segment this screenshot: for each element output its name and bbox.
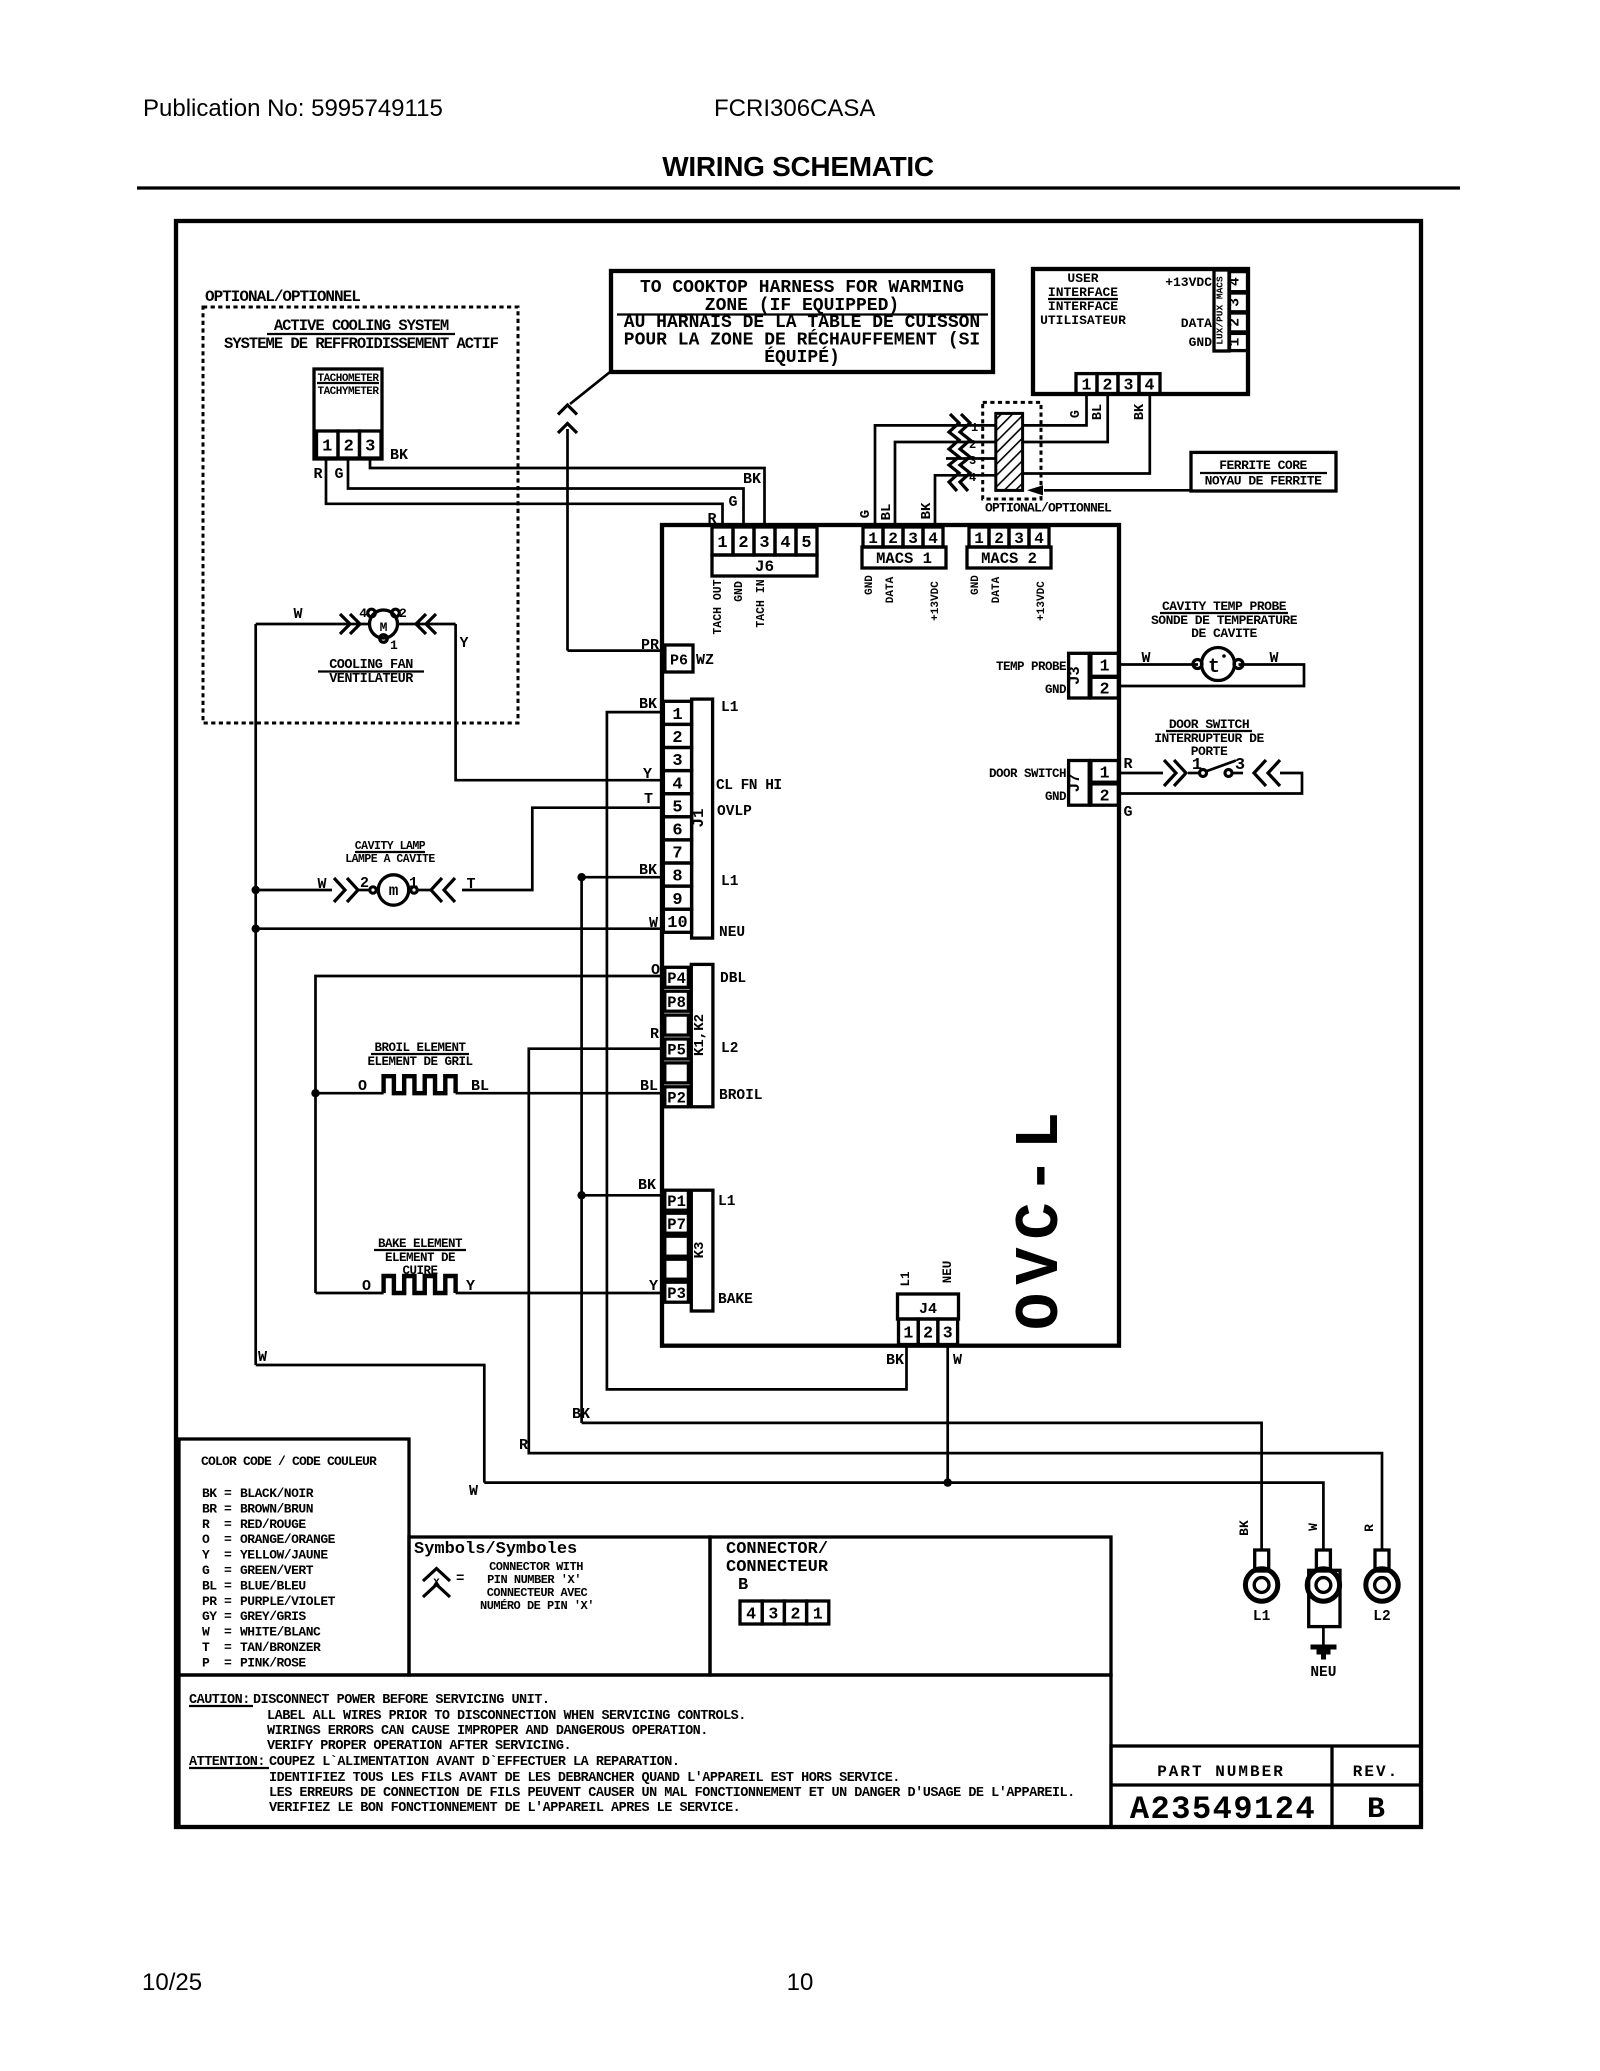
wire line3 stub into ferrite	[946, 457, 1023, 460]
svg-text:RED/ROUGE: RED/ROUGE	[240, 1517, 306, 1532]
svg-text:INTERFACE: INTERFACE	[1048, 285, 1118, 300]
svg-text:3: 3	[672, 752, 682, 771]
svg-text:4: 4	[746, 1604, 756, 1623]
svg-text:GND: GND	[1189, 335, 1213, 350]
svg-text:8: 8	[672, 868, 682, 887]
svg-text:3: 3	[365, 438, 375, 457]
wire cooling fan right Y	[398, 614, 469, 652]
symbol description	[480, 1560, 594, 1613]
svg-text:9: 9	[672, 891, 682, 910]
svg-text:10: 10	[787, 1969, 814, 1996]
svg-text:J3: J3	[1066, 666, 1084, 685]
svg-text:BAKE: BAKE	[718, 1292, 753, 1308]
svg-text:G: G	[728, 494, 737, 511]
svg-text:TAN/BRONZER: TAN/BRONZER	[240, 1640, 321, 1655]
svg-text:GND: GND	[864, 575, 876, 595]
svg-text:CL FN HI: CL FN HI	[716, 778, 782, 794]
svg-text:BK: BK	[638, 1177, 656, 1194]
connector J1 bracket	[690, 699, 713, 938]
optional dashed box	[203, 307, 518, 723]
svg-text:L1: L1	[1253, 1609, 1271, 1625]
colour code box	[179, 1439, 409, 1675]
wire T J1 pin5 to cavity lamp	[462, 808, 663, 890]
off-page connector arrow to cooktop harness	[558, 372, 664, 651]
svg-text:Y: Y	[459, 635, 468, 652]
svg-text:L1: L1	[721, 874, 739, 890]
svg-text:L1: L1	[718, 1194, 736, 1210]
svg-text:Y: Y	[643, 766, 652, 783]
bake element caption	[374, 1237, 466, 1278]
svg-text:ORANGE/ORANGE: ORANGE/ORANGE	[240, 1532, 336, 1547]
ferrite core pointer arrow	[1027, 485, 1191, 495]
user interface box	[1033, 269, 1248, 394]
svg-text:1: 1	[1228, 337, 1244, 346]
svg-text:CONNECTEUR: CONNECTEUR	[726, 1558, 829, 1577]
svg-text:R: R	[313, 466, 322, 483]
ferrite optional dashed box	[983, 402, 1041, 499]
tachometer connector	[314, 369, 382, 459]
R label bottom	[519, 1437, 528, 1454]
svg-text:=: =	[224, 1594, 232, 1609]
svg-text:MACS 2: MACS 2	[981, 550, 1037, 568]
svg-text:BL: BL	[471, 1078, 489, 1095]
svg-text:O: O	[362, 1278, 371, 1295]
svg-text:BK: BK	[919, 502, 935, 519]
svg-text:G: G	[334, 466, 343, 483]
svg-text:1: 1	[390, 638, 398, 653]
svg-text:10/25: 10/25	[142, 1969, 202, 1996]
svg-text:FERRITE CORE: FERRITE CORE	[1219, 458, 1307, 473]
svg-text:3: 3	[1014, 530, 1024, 548]
svg-text:1: 1	[868, 530, 878, 548]
wire W fan down the left side	[254, 624, 257, 1365]
cavity temp probe caption	[1151, 599, 1298, 641]
svg-text:10: 10	[667, 914, 687, 933]
wire BK J1 pin1 to J4 pin1	[607, 712, 907, 1389]
footer page number	[787, 1969, 814, 1996]
svg-text:2: 2	[791, 1604, 801, 1623]
svg-text:BK: BK	[743, 471, 761, 488]
svg-text:+13VDC: +13VDC	[930, 581, 942, 621]
to cooktop harness note box	[611, 271, 993, 372]
svg-text:=: =	[224, 1532, 232, 1547]
svg-text:Symbols/Symboles: Symbols/Symboles	[414, 1540, 577, 1559]
svg-text:R: R	[202, 1517, 210, 1532]
svg-text:NEU: NEU	[941, 1261, 955, 1284]
cavity lamp wire labels	[317, 876, 475, 893]
svg-text:OPTIONAL/OPTIONNEL: OPTIONAL/OPTIONNEL	[205, 288, 360, 306]
user interface pin names	[1165, 275, 1212, 350]
svg-text:BL: BL	[202, 1578, 217, 1593]
symbols title	[414, 1540, 577, 1559]
svg-text:GND: GND	[1045, 683, 1067, 697]
svg-text:1: 1	[813, 1604, 823, 1623]
svg-text:2: 2	[1100, 787, 1110, 806]
svg-text:B: B	[1367, 1793, 1385, 1827]
cooling fan motor	[359, 606, 407, 653]
svg-text:PIN NUMBER 'X': PIN NUMBER 'X'	[487, 1573, 581, 1587]
svg-text:PR: PR	[202, 1594, 217, 1609]
svg-text:BK: BK	[886, 1352, 904, 1369]
svg-text:4: 4	[359, 606, 367, 621]
svg-text:PURPLE/VIOLET: PURPLE/VIOLET	[240, 1594, 336, 1609]
LUX/PUX MACS box	[1214, 270, 1229, 351]
svg-text:P7: P7	[667, 1216, 686, 1234]
wire W J4 pin3 to neutral	[944, 1345, 952, 1487]
J3 labels	[996, 660, 1067, 697]
svg-text:MACS 1: MACS 1	[876, 550, 932, 568]
svg-text:W: W	[1141, 650, 1150, 667]
connector J7	[1066, 761, 1118, 806]
svg-text:W: W	[202, 1625, 210, 1640]
connector block K1,K2 pins	[665, 967, 689, 1107]
J1 left colour labels	[639, 696, 658, 932]
svg-text:LES ERREURS DE CONNECTION DE F: LES ERREURS DE CONNECTION DE FILS PEUVEN…	[269, 1786, 1075, 1801]
svg-text:=: =	[224, 1625, 232, 1640]
J1 right side labels	[716, 700, 782, 941]
wire W lamp node to neutral line	[256, 1349, 485, 1483]
svg-text:2: 2	[672, 729, 682, 748]
svg-text:P5: P5	[667, 1042, 686, 1060]
svg-text:WIRINGS ERRORS CAN CAUSE IMPRO: WIRINGS ERRORS CAN CAUSE IMPROPER AND DA…	[267, 1724, 708, 1739]
svg-text:ELEMENT DE: ELEMENT DE	[385, 1251, 455, 1265]
connector J4 label	[898, 1294, 959, 1319]
svg-text:GND: GND	[733, 581, 746, 602]
svg-text:3: 3	[768, 1604, 778, 1623]
svg-text:=: =	[224, 1501, 232, 1516]
K3 left colour labels	[638, 1177, 658, 1295]
svg-text:2: 2	[344, 438, 354, 457]
connector J6 label	[712, 555, 817, 576]
temp probe wire labels W W	[1141, 650, 1278, 667]
ground symbol NEU	[1310, 1627, 1336, 1681]
MACS 1 wire colour labels	[858, 502, 935, 520]
svg-text:=: =	[224, 1609, 232, 1624]
J4 top labels L1 NEU	[899, 1261, 955, 1287]
wire R P5 to L2	[529, 1049, 1382, 1550]
MACS 2 pin function labels	[970, 575, 1048, 621]
svg-text:1: 1	[409, 875, 418, 892]
svg-text:P4: P4	[667, 970, 686, 988]
symbols box	[409, 1537, 710, 1675]
svg-text:L2: L2	[721, 1041, 738, 1057]
temp probe sensor	[1118, 648, 1304, 687]
svg-text:BROWN/BRUN: BROWN/BRUN	[240, 1501, 313, 1516]
svg-text:UTILISATEUR: UTILISATEUR	[1040, 313, 1126, 328]
colour code title	[201, 1454, 377, 1469]
svg-text:TACHYMETER: TACHYMETER	[317, 386, 379, 398]
wire W J1 pin10 to lamp node	[252, 925, 664, 933]
svg-text:3: 3	[943, 1324, 953, 1343]
svg-text:1: 1	[903, 1324, 913, 1343]
wire BK UI pin4 to MACS1 pin4 through ferrite	[935, 394, 1150, 527]
svg-text:1: 1	[717, 534, 727, 553]
svg-text:COLOR CODE / CODE COULEUR: COLOR CODE / CODE COULEUR	[201, 1454, 377, 1469]
K1,K2 right labels	[719, 971, 763, 1104]
svg-text:GY: GY	[202, 1609, 217, 1624]
svg-text:4: 4	[672, 775, 682, 794]
svg-text:BL: BL	[1091, 404, 1106, 420]
svg-text:ÉQUIPÉ): ÉQUIPÉ)	[764, 346, 840, 368]
connector J4 pins	[899, 1319, 958, 1345]
svg-text:=: =	[224, 1655, 232, 1670]
terminal colour labels	[1237, 1520, 1377, 1536]
svg-text:WHITE/BLANC: WHITE/BLANC	[240, 1625, 321, 1640]
part number header	[1157, 1763, 1399, 1781]
wire tach pin1 R to J6 pin1	[326, 459, 723, 527]
svg-text:T: T	[466, 876, 475, 893]
svg-text:FCRI306CASA: FCRI306CASA	[714, 95, 875, 122]
svg-text:P3: P3	[667, 1285, 686, 1303]
svg-text:GREEN/VERT: GREEN/VERT	[240, 1563, 314, 1578]
svg-text:2: 2	[1228, 318, 1244, 327]
K1,K2 bracket	[691, 964, 713, 1106]
svg-text:T: T	[202, 1640, 210, 1655]
svg-text:Y: Y	[466, 1278, 475, 1295]
svg-text:GREY/GRIS: GREY/GRIS	[240, 1609, 306, 1624]
svg-text:2: 2	[1100, 680, 1110, 699]
svg-text:USER: USER	[1067, 271, 1098, 286]
user interface right pin column	[1228, 272, 1248, 351]
svg-text:P8: P8	[667, 994, 686, 1012]
OVC-L designation	[1005, 1104, 1076, 1330]
svg-text:=: =	[224, 1486, 232, 1501]
svg-text:BK: BK	[1237, 1520, 1252, 1536]
svg-text:t: t	[1208, 656, 1220, 679]
svg-text:K1,K2: K1,K2	[692, 1014, 708, 1056]
svg-text:Y: Y	[202, 1548, 210, 1563]
colour code entries	[202, 1486, 336, 1670]
svg-text:BK: BK	[639, 696, 657, 713]
J6 side wire labels	[707, 471, 761, 528]
svg-text:+13VDC: +13VDC	[1165, 275, 1212, 290]
svg-text:DATA: DATA	[991, 576, 1003, 603]
door switch caption	[1154, 717, 1264, 759]
svg-text:NUMÉRO DE PIN 'X': NUMÉRO DE PIN 'X'	[480, 1598, 594, 1613]
svg-text:ACTIVE COOLING SYSTEM: ACTIVE COOLING SYSTEM	[274, 317, 449, 335]
svg-text:1: 1	[1100, 657, 1110, 676]
terminal NEU with fuse	[1307, 1550, 1340, 1627]
svg-text:CAVITY TEMP PROBE: CAVITY TEMP PROBE	[1162, 599, 1287, 614]
svg-text:BL: BL	[879, 504, 895, 521]
svg-text:=: =	[224, 1578, 232, 1593]
main control board OVC-L box	[662, 525, 1119, 1346]
svg-text:1: 1	[1100, 764, 1110, 783]
optional active cooling system label	[205, 288, 360, 306]
svg-text:J1: J1	[690, 808, 708, 827]
wire BL UI pin2 to MACS1 pin2	[895, 394, 1108, 527]
svg-text:PR: PR	[641, 637, 659, 654]
svg-text:R: R	[519, 1437, 528, 1454]
svg-text:ELEMENT DE GRIL: ELEMENT DE GRIL	[367, 1055, 472, 1069]
svg-text:m: m	[389, 882, 399, 900]
UI bottom wire colour labels	[1069, 403, 1148, 420]
svg-text:2: 2	[399, 606, 407, 621]
svg-text:2: 2	[923, 1324, 933, 1343]
header model number	[714, 95, 875, 122]
svg-text:NOYAU DE FERRITE: NOYAU DE FERRITE	[1205, 474, 1323, 489]
MACS 1 pin function labels	[864, 575, 942, 621]
connector J1 pins	[663, 701, 691, 933]
svg-text:IDENTIFIEZ TOUS LES FILS AVANT: IDENTIFIEZ TOUS LES FILS AVANT DE LES DE…	[269, 1771, 900, 1786]
svg-text:K3: K3	[692, 1242, 708, 1259]
svg-text:1: 1	[971, 421, 978, 435]
P6 labels PR WZ	[641, 637, 714, 669]
svg-text:GND: GND	[1045, 790, 1067, 804]
svg-text:OVLP: OVLP	[717, 804, 752, 820]
svg-text:4: 4	[928, 530, 938, 548]
svg-text:W: W	[293, 606, 302, 623]
svg-text:M: M	[380, 620, 388, 635]
svg-text:R: R	[650, 1026, 659, 1043]
wire BK K3 P1	[582, 1194, 665, 1197]
svg-text:TEMP PROBE: TEMP PROBE	[996, 660, 1066, 674]
footer date	[142, 1969, 202, 1996]
svg-text:Y: Y	[649, 1278, 658, 1295]
svg-text:3: 3	[908, 530, 918, 548]
part number table	[1111, 1746, 1421, 1827]
svg-text:REV.: REV.	[1353, 1763, 1399, 1781]
svg-text:W: W	[258, 1349, 267, 1366]
active cooling system title	[224, 317, 499, 353]
connector pin zigzags	[949, 414, 970, 491]
svg-text:DATA: DATA	[885, 576, 897, 603]
svg-text:7: 7	[672, 845, 682, 864]
svg-text:2: 2	[360, 875, 369, 892]
user interface bottom pin row	[1076, 374, 1160, 395]
svg-text:2: 2	[738, 534, 748, 553]
svg-text:WZ: WZ	[696, 652, 714, 669]
svg-text:WIRING SCHEMATIC: WIRING SCHEMATIC	[662, 151, 934, 182]
svg-text:DISCONNECT POWER BEFORE SERVIC: DISCONNECT POWER BEFORE SERVICING UNIT.	[253, 1693, 549, 1708]
svg-text:DE CAVITE: DE CAVITE	[1191, 626, 1257, 641]
broil element caption	[367, 1041, 472, 1069]
svg-text:1: 1	[672, 706, 682, 725]
svg-text:OVC-L: OVC-L	[1005, 1104, 1076, 1330]
cavity lamp caption	[345, 840, 435, 866]
svg-text:GND: GND	[970, 575, 982, 595]
svg-text:SYSTEME DE REFFROIDISSEMENT AC: SYSTEME DE REFFROIDISSEMENT ACTIF	[224, 335, 499, 353]
tachometer wire labels	[313, 447, 408, 483]
wire G UI pin1 to MACS1 pin1	[875, 394, 1087, 527]
svg-text:TO COOKTOP HARNESS FOR WARMING: TO COOKTOP HARNESS FOR WARMING	[640, 278, 964, 298]
caution text	[189, 1693, 1075, 1816]
svg-text:DBL: DBL	[720, 971, 746, 987]
diagram outer frame	[176, 221, 1421, 1827]
svg-text:TACH IN: TACH IN	[755, 579, 768, 627]
svg-text:W: W	[1306, 1523, 1321, 1531]
svg-text:W: W	[469, 1483, 478, 1500]
svg-text:L1: L1	[721, 700, 739, 716]
svg-text:=: =	[224, 1548, 232, 1563]
K3 bracket	[691, 1190, 713, 1311]
svg-text:5: 5	[801, 534, 811, 553]
connector MACS 1 pins	[863, 527, 943, 548]
svg-text:G: G	[1123, 804, 1132, 821]
user interface title	[1040, 271, 1126, 328]
connector P6	[665, 645, 693, 672]
svg-text:VENTILATEUR: VENTILATEUR	[329, 672, 414, 687]
connector J3	[1066, 653, 1118, 698]
svg-text:L1: L1	[899, 1271, 913, 1286]
svg-text:BR: BR	[202, 1501, 217, 1516]
ferrite core label box	[1191, 452, 1336, 491]
svg-text:G: G	[1069, 410, 1084, 418]
svg-text:x: x	[433, 1576, 440, 1589]
connector MACS 1 label	[862, 547, 946, 568]
svg-text:2: 2	[888, 530, 898, 548]
svg-text:LABEL ALL WIRES PRIOR TO DISCO: LABEL ALL WIRES PRIOR TO DISCONNECTION W…	[267, 1709, 746, 1724]
svg-text:VERIFIEZ LE BON FONCTIONNEMENT: VERIFIEZ LE BON FONCTIONNEMENT DE L'APPA…	[269, 1801, 740, 1816]
title WIRING SCHEMATIC	[662, 151, 934, 182]
svg-text:=: =	[224, 1563, 232, 1578]
svg-text:LUX/PUX MACS: LUX/PUX MACS	[1215, 276, 1226, 345]
svg-text:3: 3	[1124, 376, 1134, 395]
svg-text:NEU: NEU	[719, 925, 745, 941]
svg-text:L2: L2	[1373, 1609, 1390, 1625]
svg-text:3: 3	[969, 454, 976, 468]
svg-text:+13VDC: +13VDC	[1036, 581, 1048, 621]
svg-text:T: T	[644, 791, 653, 808]
connector block K3 pins	[665, 1190, 689, 1303]
svg-text:O: O	[358, 1078, 367, 1095]
svg-text:P6: P6	[670, 653, 688, 670]
ferrite core component	[996, 413, 1023, 490]
wire BK line to L1 terminal	[572, 1406, 1262, 1550]
svg-text:5: 5	[672, 798, 682, 817]
svg-text:VERIFY PROPER OPERATION AFTER: VERIFY PROPER OPERATION AFTER SERVICING.	[267, 1739, 571, 1754]
K1,K2 left colour labels	[640, 962, 660, 1095]
caution box	[179, 1675, 1111, 1827]
wire tach pin3 BK to J6 pin3	[370, 459, 765, 527]
svg-text:A23549124: A23549124	[1130, 1791, 1316, 1828]
svg-text:6: 6	[672, 821, 682, 840]
connector MACS 2 label	[967, 547, 1051, 568]
svg-text:W: W	[317, 876, 326, 893]
wire O P4 to elements	[311, 976, 665, 1293]
J4 bottom labels BK W	[886, 1352, 962, 1369]
wire BK main vertical	[577, 877, 585, 1423]
svg-text:BK: BK	[572, 1406, 590, 1423]
svg-text:=: =	[224, 1640, 232, 1655]
svg-text:J6: J6	[755, 558, 774, 576]
svg-text:W: W	[953, 1352, 962, 1369]
svg-text:3: 3	[759, 534, 769, 553]
connector B pin row	[740, 1601, 829, 1624]
door switch component	[1118, 756, 1302, 794]
svg-text:BLACK/NOIR: BLACK/NOIR	[240, 1486, 314, 1501]
svg-text:P: P	[202, 1655, 210, 1670]
K3 right labels	[718, 1194, 753, 1308]
zigzag pin numbers	[969, 421, 978, 485]
optional/optionnel label	[985, 501, 1112, 516]
cooling fan caption	[318, 658, 424, 687]
svg-text:BK: BK	[202, 1486, 217, 1501]
svg-text:BLUE/BLEU: BLUE/BLEU	[240, 1578, 306, 1593]
svg-text:DOOR SWITCH: DOOR SWITCH	[989, 767, 1066, 781]
connector B box	[710, 1537, 1111, 1675]
svg-text:R: R	[1123, 756, 1132, 773]
terminal L2	[1366, 1550, 1398, 1625]
svg-text:NEU: NEU	[1310, 1665, 1336, 1681]
connector J6 pins	[712, 527, 817, 555]
svg-text:W: W	[1269, 650, 1278, 667]
svg-text:1: 1	[322, 438, 332, 457]
connector B title	[726, 1540, 829, 1595]
svg-text:1: 1	[1082, 376, 1092, 395]
svg-text:2: 2	[1103, 376, 1113, 395]
svg-text:DATA: DATA	[1181, 316, 1212, 331]
